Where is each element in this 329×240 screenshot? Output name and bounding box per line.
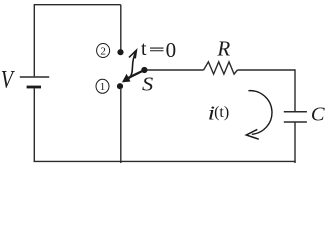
wire top (from left corner to switch drop) <box>34 4 121 6</box>
node terminal 1 dot <box>117 83 123 89</box>
switch S blade with solid arrowhead toward terminal 1 <box>122 70 144 82</box>
svg-text:t: t <box>141 38 147 60</box>
wire resistor to right corner <box>237 69 295 71</box>
label t = 0 <box>141 38 176 62</box>
label circled 1 <box>96 79 109 93</box>
svg-text:R: R <box>216 37 230 61</box>
capacitor C top plate <box>284 111 307 113</box>
resistor R zigzag <box>204 62 238 74</box>
wire right side down to capacitor <box>294 69 296 111</box>
label i(t) <box>208 102 230 124</box>
current direction arc with open arrowhead <box>246 91 272 140</box>
label S <box>142 73 154 96</box>
svg-text:C: C <box>311 103 325 125</box>
wire bottom <box>34 160 296 162</box>
battery V bottom plate <box>27 86 41 89</box>
wire battery to bottom <box>33 88 35 161</box>
wire terminal 1 down to bottom wire <box>120 88 122 163</box>
svg-text:V: V <box>1 66 15 94</box>
svg-text:(t): (t) <box>214 104 229 121</box>
wire capacitor to bottom wire <box>294 122 296 163</box>
label R <box>216 37 230 61</box>
svg-text:2: 2 <box>100 45 106 57</box>
svg-text:S: S <box>142 73 154 96</box>
capacitor C bottom plate <box>284 121 307 123</box>
svg-text:1: 1 <box>100 81 106 93</box>
node terminal 2 dot <box>117 49 123 55</box>
wire left (top corner down to battery) <box>33 4 35 76</box>
switch S pivot dot <box>141 67 147 73</box>
label circled 2 <box>97 44 110 58</box>
wire drop to terminal 2 <box>120 5 122 50</box>
battery V top plate <box>20 76 49 78</box>
label V <box>1 66 15 94</box>
label C <box>311 103 325 125</box>
svg-text:0: 0 <box>166 38 177 62</box>
switch motion curved arrow (thin, open head, pointing up toward t=0) <box>126 50 136 80</box>
wire switch pivot to resistor <box>147 69 204 71</box>
